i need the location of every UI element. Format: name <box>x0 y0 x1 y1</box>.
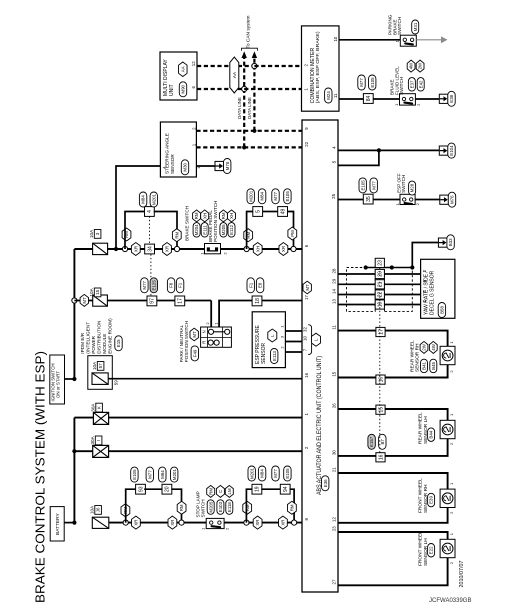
steering angle sensor box M30 <box>160 122 196 177</box>
svg-text:E111: E111 <box>202 225 207 235</box>
svg-text:E103: E103 <box>218 501 223 512</box>
wire ABS pin 5 branch <box>338 150 379 165</box>
connector E125 above 97 <box>150 278 157 293</box>
variant 2W <box>416 60 424 72</box>
svg-text:5: 5 <box>422 290 427 293</box>
svg-text:DECEL G SENSOR: DECEL G SENSOR <box>430 270 436 315</box>
connector M24 <box>325 88 332 103</box>
svg-text:XR: XR <box>255 520 260 526</box>
junction circle A <box>174 246 179 251</box>
svg-text:XH: XH <box>202 213 207 219</box>
wire 18 to ABS pin 17 <box>262 300 302 302</box>
svg-text:16: 16 <box>378 377 384 383</box>
svg-text:2: 2 <box>303 64 308 67</box>
wire ESP sensor pin 1 to ABS pin 32 <box>285 330 302 332</box>
battery box <box>50 507 64 541</box>
hex RM bypassA left <box>122 228 131 241</box>
hex XR stop 2 <box>168 516 177 529</box>
svg-text:35: 35 <box>366 196 372 202</box>
svg-text:ABS ACTUATOR AND ELECTRIC UNIT: ABS ACTUATOR AND ELECTRIC UNIT (CONTROL … <box>316 356 323 495</box>
svg-text:E105: E105 <box>360 180 365 191</box>
svg-text:93: 93 <box>138 486 144 492</box>
svg-text:AA: AA <box>180 66 185 72</box>
yaw wire 1 ABS pin 28 to sensor pin 2 <box>338 273 421 275</box>
hex RM bypassB <box>244 229 253 242</box>
wire multi display pin 12 to CAN <box>197 65 254 67</box>
svg-text:M77: M77 <box>142 280 147 289</box>
front RH sensor symbol <box>440 489 455 507</box>
svg-text:4W: 4W <box>431 343 436 350</box>
svg-text:4: 4 <box>422 300 427 303</box>
connector square 20 stop <box>162 484 172 494</box>
svg-text:26: 26 <box>332 403 337 408</box>
connector B44 <box>428 428 435 442</box>
svg-text:59: 59 <box>113 380 118 385</box>
connector square 23 <box>375 258 384 267</box>
svg-text:1: 1 <box>449 482 454 485</box>
svg-text:B7: B7 <box>380 439 385 445</box>
connector F1 above 17 <box>176 278 183 293</box>
hex RM bypassR right <box>288 501 297 514</box>
svg-text:E22: E22 <box>429 546 434 554</box>
connector square 22 <box>375 290 384 299</box>
wire fuse to 97 <box>107 300 211 302</box>
svg-text:M28: M28 <box>410 183 415 192</box>
bypass A wire right <box>154 212 177 250</box>
svg-text:19: 19 <box>255 486 261 492</box>
svg-text:F1: F1 <box>248 282 253 288</box>
bypass A wire left <box>125 212 145 250</box>
hex XH brake switch <box>201 210 209 222</box>
svg-text:E42: E42 <box>418 80 423 88</box>
connector square 34 <box>145 244 155 254</box>
connector E39 <box>428 493 435 507</box>
connector B45 <box>430 359 437 373</box>
svg-text:2: 2 <box>205 322 210 325</box>
svg-text:M205: M205 <box>208 501 213 513</box>
connector M84 above 19 <box>258 466 265 481</box>
svg-text:N: N <box>201 330 206 333</box>
connector E42 <box>417 78 424 92</box>
svg-text:27: 27 <box>332 579 337 584</box>
svg-text:16: 16 <box>378 454 384 460</box>
connector M205 stop <box>207 500 214 515</box>
pin group hexagon L <box>312 333 321 346</box>
P/N switch drop left <box>210 301 212 328</box>
svg-text:6: 6 <box>304 244 309 247</box>
svg-text:1: 1 <box>191 143 196 146</box>
svg-text:20: 20 <box>165 486 171 492</box>
connector E37 <box>408 78 415 92</box>
connector E105 above 35 <box>359 178 366 193</box>
junction circle brake row left <box>122 246 127 251</box>
svg-text:POWER: POWER <box>91 335 96 353</box>
svg-text:10A: 10A <box>89 287 94 296</box>
svg-text:10A: 10A <box>89 505 94 514</box>
svg-text:SWITCH: SWITCH <box>399 77 404 95</box>
connector F8 above 17 <box>167 278 174 293</box>
ESP OFF switch M28 <box>400 194 415 204</box>
yaw wire 2 ABS pin 29 to sensor pin 6 <box>338 283 421 285</box>
shield drain to ground B33 <box>412 243 438 268</box>
junction dot E104 <box>377 148 381 152</box>
hex MT near P/N <box>190 328 198 341</box>
svg-text:30A: 30A <box>90 403 95 412</box>
svg-text:11: 11 <box>333 93 338 98</box>
connector E103 stop <box>217 500 224 515</box>
connector square 20 <box>375 269 384 278</box>
connector M201 above 4 <box>150 192 157 207</box>
junction dot CAN2 <box>242 145 246 149</box>
connector M77 above 84 <box>358 75 365 90</box>
joint connector AA <box>230 57 239 93</box>
svg-text:2: 2 <box>304 446 309 449</box>
svg-text:30A: 30A <box>90 435 95 444</box>
parking brake switch M31 <box>400 35 416 46</box>
svg-text:12: 12 <box>332 517 337 522</box>
svg-text:BRAKE SWITCH: BRAKE SWITCH <box>184 206 189 241</box>
svg-text:4: 4 <box>332 146 337 149</box>
svg-text:SENSOR: SENSOR <box>170 154 175 174</box>
ground E104 <box>439 146 448 155</box>
svg-text:2: 2 <box>449 561 454 564</box>
svg-text:RM: RM <box>174 231 179 238</box>
svg-text:MT: MT <box>82 297 87 304</box>
svg-text:15: 15 <box>378 407 384 413</box>
connector F1 above 18 <box>247 278 254 293</box>
junction dot CAN1 <box>252 129 256 133</box>
svg-text:7: 7 <box>303 348 308 351</box>
svg-text:E105: E105 <box>285 468 290 479</box>
IPDM E/R box E15 <box>88 356 113 390</box>
bypass B wire <box>247 212 253 250</box>
brake fluid level switch E37/E42 <box>400 94 416 105</box>
connector square 93 <box>136 484 146 494</box>
wire comb meter pin 10 to parking brake switch <box>339 39 400 41</box>
junction circle stop 3 <box>244 520 249 525</box>
svg-text:XR: XR <box>133 246 138 252</box>
connector B58 <box>438 303 445 318</box>
battery fuse 10A J6 <box>92 517 109 528</box>
svg-text:22: 22 <box>304 141 309 146</box>
svg-text:UNIT: UNIT <box>169 84 175 96</box>
svg-text:RM: RM <box>289 504 294 511</box>
hex LM stop sw <box>225 485 233 497</box>
svg-text:1: 1 <box>449 532 454 535</box>
rear RH sensor symbol <box>440 346 455 364</box>
svg-text:1: 1 <box>395 202 400 205</box>
multi display unit box M90 <box>160 52 197 100</box>
svg-text:28: 28 <box>332 268 337 273</box>
ground E38 <box>439 94 448 103</box>
connector E105 above 94 <box>284 466 291 481</box>
svg-text:16: 16 <box>304 372 309 377</box>
svg-text:10A: 10A <box>89 229 94 238</box>
svg-text:25: 25 <box>331 193 336 198</box>
svg-text:M201: M201 <box>151 193 156 205</box>
svg-text:84: 84 <box>366 96 372 102</box>
svg-text:PM: PM <box>290 230 295 237</box>
svg-text:22: 22 <box>378 292 384 298</box>
connector E112 <box>228 223 235 238</box>
svg-text:M77: M77 <box>371 181 376 190</box>
parking brake ground arrow <box>441 36 448 43</box>
svg-text:DATA LINE: DATA LINE <box>237 97 242 119</box>
svg-text:E113: E113 <box>272 350 277 360</box>
svg-text:18: 18 <box>255 298 261 304</box>
connector M205 <box>220 223 227 238</box>
svg-text:RM: RM <box>179 504 184 511</box>
svg-text:1: 1 <box>196 166 201 169</box>
svg-text:POSITION SWITCH: POSITION SWITCH <box>213 201 218 242</box>
bypass R wire down <box>290 489 295 522</box>
wire ABS pin 25 to ESP OFF switch <box>338 199 400 201</box>
wire ESP sensor pin 2 to ABS pin 7 <box>285 351 302 353</box>
svg-text:6: 6 <box>422 280 427 283</box>
wire IPDM to ABS pin 16 <box>108 378 302 380</box>
svg-text:94: 94 <box>283 486 289 492</box>
svg-text:MT: MT <box>305 284 310 291</box>
svg-text:M201: M201 <box>248 190 253 202</box>
front wheel sensor RH circuit pin 21 <box>338 473 448 523</box>
stop row wire <box>109 522 302 524</box>
svg-text:1: 1 <box>279 325 284 328</box>
svg-text:To CAN system: To CAN system <box>246 15 252 48</box>
svg-text:FRONT WHEEL: FRONT WHEEL <box>418 478 424 513</box>
connector E118 stop <box>226 500 233 515</box>
svg-text:SWITCH: SWITCH <box>200 499 205 517</box>
svg-text:E8: E8 <box>258 282 263 288</box>
svg-text:10: 10 <box>303 336 308 341</box>
shield drain dot 1 <box>364 265 368 269</box>
svg-text:I: I <box>96 440 101 441</box>
connector B7 <box>379 434 386 449</box>
connector E113 <box>271 349 278 364</box>
svg-text:M24: M24 <box>326 91 331 100</box>
svg-text:E157: E157 <box>369 436 374 447</box>
hex C stop sw <box>216 485 224 497</box>
variant 2W rear <box>420 341 428 353</box>
svg-text:19: 19 <box>378 302 384 308</box>
svg-text:M77: M77 <box>359 78 364 87</box>
connector square 94 <box>280 484 290 494</box>
junction circle B <box>244 246 249 251</box>
connector E15 <box>115 336 122 351</box>
svg-text:57: 57 <box>98 363 103 368</box>
svg-text:REAR WHEEL: REAR WHEEL <box>418 412 424 444</box>
wire 93 to 20 <box>144 488 162 490</box>
figure code <box>429 598 471 604</box>
wire 19 to 94 <box>261 488 280 490</box>
svg-text:BATTERY: BATTERY <box>55 513 61 535</box>
junction circle CAN-multi display 1 <box>252 63 257 68</box>
bypass R wire <box>246 489 252 522</box>
hex XR brake 1 <box>131 243 140 256</box>
svg-text:ENGINE ROOM): ENGINE ROOM) <box>108 318 113 354</box>
junction circle MT row <box>72 298 77 303</box>
svg-text:1: 1 <box>199 252 204 255</box>
connector B41 <box>421 359 428 373</box>
svg-text:XR: XR <box>165 246 170 252</box>
connector M77 above 49 <box>272 189 279 204</box>
svg-text:XH: XH <box>229 213 234 219</box>
svg-text:2: 2 <box>416 103 421 106</box>
junction circle stop left <box>123 520 128 525</box>
CAN arrow 1 <box>242 51 247 58</box>
connector M77 above 93 <box>146 467 153 482</box>
svg-text:E36: E36 <box>323 479 328 487</box>
hex RM brake switch <box>193 210 201 222</box>
connector square 49 <box>278 207 288 217</box>
ground M76 (steering) <box>215 161 224 170</box>
svg-text:2W: 2W <box>418 62 423 69</box>
stop lamp switch symbol <box>206 518 224 528</box>
svg-text:M84: M84 <box>260 469 265 478</box>
connector M31 <box>412 20 419 34</box>
svg-text:M90: M90 <box>181 84 186 93</box>
svg-text:34: 34 <box>147 246 153 252</box>
svg-text:DATA LINE: DATA LINE <box>247 97 252 119</box>
wire ESP sensor pin 3 to ABS pin 10 <box>285 341 302 343</box>
connector E157 <box>368 434 375 449</box>
wire 5 to 49 <box>263 211 278 213</box>
IGN trunk vertical <box>73 249 75 379</box>
connector M204 <box>193 223 200 238</box>
connector square 19 <box>375 300 384 309</box>
bypass L wire down <box>171 489 181 522</box>
front wheel sensor LH circuit pin 23 <box>338 532 448 585</box>
ABS actuator and electric unit (control unit) box E36 <box>302 120 338 592</box>
svg-text:29: 29 <box>332 278 337 283</box>
svg-text:1: 1 <box>213 322 218 325</box>
svg-text:F1: F1 <box>178 282 183 288</box>
connector E8 above 18 <box>256 278 263 293</box>
svg-text:15: 15 <box>95 289 100 294</box>
svg-text:23: 23 <box>332 526 337 531</box>
svg-text:1: 1 <box>394 103 399 106</box>
svg-text:M31: M31 <box>413 22 418 31</box>
svg-text:M84: M84 <box>141 195 146 204</box>
svg-text:20: 20 <box>378 271 384 277</box>
svg-text:XR: XR <box>280 520 285 526</box>
junction circle C <box>291 246 296 251</box>
rear wheel sensor LH circuit pin 26 <box>338 409 448 456</box>
svg-text:M201: M201 <box>172 469 177 481</box>
connector square 16 (rear RH ret) <box>376 375 385 384</box>
svg-text:RM: RM <box>245 504 250 511</box>
svg-text:F8: F8 <box>169 282 174 288</box>
junction circle stop 4 <box>292 520 297 525</box>
svg-text:1: 1 <box>201 527 206 530</box>
steering ground wire <box>196 165 215 167</box>
svg-text:(ABS, ESP, ESP OFF, BRAKE): (ABS, ESP, ESP OFF, BRAKE) <box>315 31 320 103</box>
svg-text:2: 2 <box>422 269 427 272</box>
svg-text:XR: XR <box>170 520 175 526</box>
svg-text:2: 2 <box>279 346 284 349</box>
svg-text:BRAKE CONTROL SYSTEM (WITH ESP: BRAKE CONTROL SYSTEM (WITH ESP) <box>32 351 47 603</box>
svg-text:13: 13 <box>332 299 337 304</box>
svg-text:M77: M77 <box>147 470 152 479</box>
junction dot IPDM <box>72 377 76 381</box>
park/neutral position switch F49 <box>201 327 232 347</box>
svg-text:REAR WHEEL: REAR WHEEL <box>410 340 416 372</box>
svg-text:2: 2 <box>449 511 454 514</box>
svg-text:B44: B44 <box>429 430 434 438</box>
wire comb meter CAN pin 1 <box>244 88 301 90</box>
wire ESP OFF to ground M76 <box>415 199 440 201</box>
svg-text:5: 5 <box>256 210 262 213</box>
P/N switch drop right <box>219 301 253 328</box>
connector M77 above 94 <box>272 466 279 481</box>
connector M30 <box>181 160 188 175</box>
svg-text:C: C <box>218 490 223 493</box>
joint AA label in box <box>179 62 188 77</box>
svg-text:M201: M201 <box>249 467 254 479</box>
ESP pressure sensor box E113 <box>252 312 285 368</box>
junction circle stop 2 <box>179 520 184 525</box>
svg-text:SWITCH: SWITCH <box>397 17 402 35</box>
steering feed wire <box>116 166 160 249</box>
svg-text:M77: M77 <box>273 469 278 478</box>
svg-text:12: 12 <box>191 61 196 66</box>
battery trunk vertical <box>73 418 75 523</box>
svg-text:M76: M76 <box>450 195 455 204</box>
wire multi display pin 6 to CAN <box>197 88 244 90</box>
dotted link 4-34-97 <box>149 216 151 244</box>
junction dot steering feed <box>114 247 118 251</box>
connector square 15 (rear LH) <box>376 405 385 414</box>
svg-text:4W: 4W <box>409 62 414 69</box>
svg-text:17: 17 <box>378 329 384 335</box>
svg-text:LM: LM <box>227 488 232 494</box>
svg-text:B33: B33 <box>448 238 453 246</box>
svg-text:2010/07/07: 2010/07/07 <box>459 561 465 588</box>
hex RM bypassA right <box>172 229 181 242</box>
svg-text:E105: E105 <box>370 77 375 88</box>
connector M201 above 19 <box>248 466 255 481</box>
svg-text:21: 21 <box>378 281 384 287</box>
junction dot drain <box>410 265 414 269</box>
wire ABS pin 4 to ground E104 <box>338 149 439 151</box>
pin group label L <box>268 329 277 342</box>
svg-text:M77: M77 <box>273 191 278 200</box>
bypass B wire down <box>288 212 294 250</box>
yaw rate side decel G sensor box B58 <box>421 259 455 318</box>
hex XH brake 3 <box>253 243 262 256</box>
connector square 16 (rear LH ret) <box>376 453 385 462</box>
bypass L wire <box>126 489 137 522</box>
ignition switch box <box>50 355 65 404</box>
fusible link row 1 (30A K) <box>74 417 93 419</box>
svg-text:E112: E112 <box>229 224 234 234</box>
svg-text:17: 17 <box>304 295 309 300</box>
svg-text:XH: XH <box>255 246 260 252</box>
connector square 97 <box>147 296 157 306</box>
svg-text:30: 30 <box>332 450 337 455</box>
connector M28 <box>409 181 416 195</box>
svg-text:R: R <box>201 341 206 344</box>
svg-text:SENSOR: SENSOR <box>261 342 267 364</box>
svg-text:MODULE: MODULE <box>102 334 107 354</box>
dotted connector line E157/B7 column <box>379 268 381 453</box>
ignition switch wire to trunk <box>65 378 75 380</box>
connector M84 above 20 <box>159 467 166 482</box>
svg-text:L: L <box>314 338 319 341</box>
brake/bpp switch symbol <box>205 244 221 254</box>
connector F49 <box>191 346 198 361</box>
CAN line 1 <box>243 58 245 148</box>
hex XR brake 2 <box>163 243 172 256</box>
